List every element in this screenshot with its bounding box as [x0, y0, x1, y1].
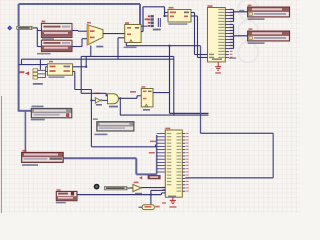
label L1 instance: [22, 150, 26, 152]
label L2 instance: [57, 189, 61, 191]
wire oscillator riser into U5: [150, 190, 152, 205]
label L1 value: [22, 164, 38, 166]
wire NOT input riser: [90, 90, 92, 147]
wire right loop horizontal upper: [201, 132, 274, 134]
label MUX: [96, 46, 103, 48]
wire input pin to constants: [34, 27, 38, 29]
ground symbol below U5: [172, 197, 174, 200]
module M1 title: [93, 118, 98, 120]
label L2 value: [56, 202, 66, 204]
NOT gate U10: [133, 184, 141, 191]
sheet border (left edge): [1, 96, 3, 213]
node knob icon: [94, 184, 100, 190]
label net x1: [239, 10, 244, 11]
watermark circle top: [238, 0, 258, 19]
wire net H3 horizontal: [22, 58, 174, 60]
wire DFF1 q output loop to adder: [142, 7, 144, 32]
wire AND output drop to loop: [119, 98, 121, 115]
wire bundle vertical feeding U5 left pins: [156, 135, 158, 174]
wire right loop vertical: [200, 46, 202, 134]
wire L2 output long horizontal: [77, 194, 162, 196]
lpm_constant B2: [41, 40, 72, 51]
wire lower horizontal to U5 bundle: [91, 146, 156, 148]
pin stubs U4 right: [225, 9, 229, 11]
wire NOT2 output to U5: [141, 187, 165, 189]
output pin mini bar: [148, 176, 160, 179]
adder U3 (lpm_add_sub): [168, 10, 191, 23]
wire bus into module B3: [19, 110, 32, 112]
ground arrow symbol: [139, 176, 142, 179]
LCD controller U5: [165, 130, 182, 197]
ground symbol red arrow: [25, 71, 29, 75]
NOT gate U8: [95, 98, 100, 104]
wire bus drop to VCC cluster: [139, 4, 141, 26]
label U5 instance: [165, 128, 170, 130]
flip-flop U2 (lpm_ff): [125, 25, 141, 43]
label counter instance: [49, 61, 53, 63]
ground symbol below U4: [217, 62, 219, 67]
wire net H2 horizontal: [81, 55, 174, 57]
pin stubs U4 left: [205, 54, 208, 56]
busmux U1: [87, 25, 103, 45]
wire bundle U4 to HEX outputs: [233, 10, 235, 22]
label U4 instance: [208, 5, 213, 7]
wire vertical branch down from clock feedback: [169, 46, 171, 114]
wire clock feedback horizontal: [126, 45, 201, 47]
label HEX1 name: [248, 42, 265, 44]
label HEX0 name: [248, 18, 265, 20]
tie-off cells: [33, 69, 38, 72]
wire DFF1 clock stub to feedback: [125, 43, 127, 46]
input pin CLOCK_50: [104, 187, 126, 190]
label B2 instance: [37, 53, 51, 55]
wire counter clock feed: [19, 64, 48, 66]
counter U6 (lpm_counter): [47, 64, 72, 75]
label cluster: [33, 83, 43, 85]
lpm_constant B1: [41, 23, 72, 37]
power VCC symbols cluster: [148, 15, 150, 17]
node junction on clock feedback: [168, 45, 170, 47]
wire counter outputs: [73, 66, 87, 68]
label Gnd net: [153, 29, 161, 31]
wire fan stubs to U5 left pins: [157, 133, 166, 135]
label B3 ports: [31, 119, 45, 121]
wire drop to divider cluster: [39, 59, 41, 69]
wire adder outputs to U4: [191, 12, 195, 14]
label adder instance: [169, 7, 174, 9]
output pin HEX1: [248, 31, 290, 41]
flip-flop U9: [141, 89, 153, 107]
wire riser into DFF1 enable: [117, 38, 119, 59]
output pin HEX0: [248, 7, 290, 17]
module M1: [97, 122, 134, 131]
wire right loop horizontal lower to U5: [185, 177, 273, 179]
wire mux sel drop: [90, 46, 92, 57]
label B1 instance: [41, 21, 45, 23]
display driver U4: [208, 8, 226, 62]
label AND instance: [109, 106, 118, 108]
wire pin2 to NOT2: [129, 187, 133, 189]
wire mux output to DFF1: [103, 33, 125, 35]
wire DFF2 q to feedback riser: [153, 92, 170, 94]
module B3 title: [32, 106, 44, 108]
wire H right drop: [173, 56, 175, 115]
node selection handle: [7, 25, 12, 30]
wire bus from L1 to LCD data bundle: [63, 157, 136, 159]
pin numbers U4 right: [230, 9, 233, 10]
label M1 ports: [95, 134, 108, 136]
U5 bottom-left pin stubs: [162, 186, 165, 188]
input pin CLK: [17, 26, 32, 29]
wire B1 to mux: [72, 30, 78, 32]
wire to AND from H2: [80, 56, 82, 93]
wire bus branch down to constant L1: [24, 111, 26, 153]
label DFF2: [141, 86, 145, 88]
wire B2 to mux: [72, 46, 82, 48]
lpm_constant L1: [22, 152, 64, 162]
watermark circle upper: [238, 21, 258, 41]
AND gate U7: [108, 94, 119, 104]
wire right loop vertical outer: [272, 133, 274, 178]
lpm_constant L2: [56, 191, 77, 200]
label DFF1 instance: [125, 22, 129, 24]
watermark circle lower: [238, 42, 258, 62]
red labels left of U5: [149, 152, 155, 154]
wire bus top horizontal: [19, 3, 140, 5]
oscillator Y1: [142, 205, 154, 210]
module B3: [31, 108, 72, 117]
wire bus left vertical riser: [18, 4, 20, 112]
wire AND output to DFF2: [119, 97, 137, 99]
